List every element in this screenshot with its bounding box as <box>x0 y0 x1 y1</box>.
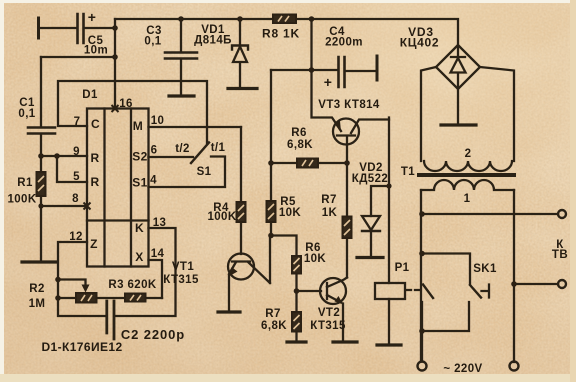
svg-text:D1: D1 <box>82 89 98 101</box>
svg-text:S2: S2 <box>132 150 147 164</box>
svg-text:2200m: 2200m <box>325 37 363 49</box>
svg-text:R2: R2 <box>29 283 45 295</box>
svg-text:+: + <box>324 74 333 90</box>
svg-text:100K: 100K <box>207 211 236 223</box>
svg-text:X: X <box>135 250 143 264</box>
svg-text:M: M <box>133 119 143 133</box>
svg-text:0,1: 0,1 <box>144 36 161 48</box>
svg-text:1M: 1M <box>29 298 46 310</box>
svg-text:C2 2200р: C2 2200р <box>121 327 185 342</box>
svg-text:Д814Б: Д814Б <box>194 35 232 47</box>
svg-text:R7: R7 <box>321 194 337 206</box>
svg-text:10m: 10m <box>84 45 108 57</box>
svg-text:T1: T1 <box>401 166 415 178</box>
svg-text:1K: 1K <box>322 207 338 219</box>
svg-text:R8 1K: R8 1K <box>262 27 300 41</box>
svg-text:12: 12 <box>69 231 83 243</box>
svg-text:K: K <box>135 221 144 235</box>
svg-text:14: 14 <box>151 248 165 260</box>
svg-text:КД522: КД522 <box>352 173 388 185</box>
svg-text:7: 7 <box>74 116 81 128</box>
svg-text:10K: 10K <box>279 207 302 219</box>
svg-text:13: 13 <box>153 217 167 229</box>
svg-text:R1: R1 <box>17 177 33 189</box>
svg-text:Z: Z <box>90 237 98 251</box>
svg-text:S1: S1 <box>197 166 212 178</box>
svg-text:2: 2 <box>465 148 472 160</box>
svg-text:КТ315: КТ315 <box>310 320 346 332</box>
svg-text:ТВ: ТВ <box>552 249 568 261</box>
svg-text:t/1: t/1 <box>211 142 226 154</box>
svg-text:100K: 100K <box>7 194 36 206</box>
svg-text:R3 620K: R3 620K <box>108 279 156 291</box>
svg-text:КТ315: КТ315 <box>163 274 199 286</box>
svg-text:КЦ402: КЦ402 <box>400 36 440 50</box>
svg-text:0,1: 0,1 <box>18 108 35 120</box>
svg-text:SK1: SK1 <box>473 263 497 275</box>
svg-text:C: C <box>91 117 100 131</box>
svg-text:16: 16 <box>119 98 133 110</box>
svg-text:R7: R7 <box>265 308 281 320</box>
svg-text:10K: 10K <box>304 253 327 265</box>
svg-text:VT2: VT2 <box>318 307 340 319</box>
svg-text:5: 5 <box>73 171 80 183</box>
svg-text:6,8K: 6,8K <box>287 139 313 151</box>
svg-text:R6: R6 <box>291 127 307 139</box>
svg-text:+: + <box>88 9 97 25</box>
svg-text:6,8K: 6,8K <box>261 320 287 332</box>
svg-text:10: 10 <box>151 115 165 127</box>
svg-text:8: 8 <box>72 193 79 205</box>
svg-text:S1: S1 <box>132 176 147 190</box>
svg-text:R: R <box>90 175 99 189</box>
svg-text:D1-К176ИЕ12: D1-К176ИЕ12 <box>41 340 122 354</box>
svg-text:4: 4 <box>150 175 157 187</box>
svg-text:6: 6 <box>151 145 158 157</box>
svg-text:1: 1 <box>464 193 471 205</box>
svg-text:R: R <box>90 151 99 165</box>
svg-text:VT3 КТ814: VT3 КТ814 <box>318 99 380 111</box>
svg-text:9: 9 <box>73 146 80 158</box>
svg-text:t/2: t/2 <box>175 143 190 155</box>
svg-text:~ 220V: ~ 220V <box>443 363 482 375</box>
svg-text:VT1: VT1 <box>172 261 194 273</box>
svg-text:P1: P1 <box>395 262 410 274</box>
